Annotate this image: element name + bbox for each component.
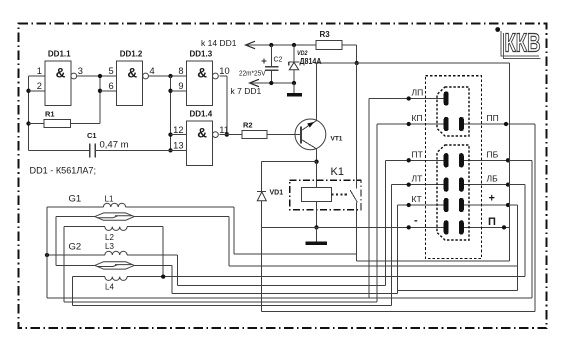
connector plug shell bottom	[437, 145, 469, 240]
svg-text:VD1: VD1	[270, 190, 284, 197]
reed switch G1	[95, 213, 135, 220]
node: out join	[225, 132, 229, 136]
wire: PT drop	[385, 160, 387, 285]
wire: input bus vertical	[170, 76, 172, 150]
wire: reed G2 row	[56, 264, 95, 266]
wire: C1 row left	[29, 149, 90, 151]
wire: row &#x41F;&#x41F; right	[464, 123, 535, 125]
relay coil K1	[302, 188, 332, 202]
wire: L2 row	[64, 226, 105, 228]
svg-text:12: 12	[173, 125, 183, 135]
svg-text:ККВ: ККВ	[505, 28, 541, 58]
svg-text:П: П	[488, 216, 496, 228]
wire: row &#x41F;&#x422; left	[386, 159, 445, 161]
wire: R1 right lead to DD1.2 input	[71, 123, 100, 125]
svg-text:КП: КП	[412, 113, 423, 123]
label k 14 DD1 with arrow	[201, 38, 316, 49]
ground (k7)	[287, 93, 302, 96]
reed switch G2	[95, 262, 135, 269]
svg-text:13: 13	[173, 141, 183, 151]
wire: rail A	[46, 207, 48, 298]
wire: VD1 down rail	[261, 201, 263, 312]
svg-text:VT1: VT1	[331, 136, 343, 143]
NAND gate DD1.3	[178, 50, 229, 106]
NAND gate DD1.1	[37, 50, 83, 106]
node: emitter node	[314, 160, 318, 164]
wire: rail C	[63, 227, 65, 302]
svg-text:Д814А: Д814А	[300, 57, 322, 66]
node: pin8 junction	[168, 74, 172, 78]
wire: DD1.1 pin1 stub and left rail	[29, 75, 45, 77]
svg-text:-: -	[414, 215, 418, 227]
wire: row &#x41F; right	[464, 226, 510, 228]
svg-text:k 14 DD1: k 14 DD1	[201, 38, 237, 48]
wire: power to VT1 collector	[317, 62, 357, 64]
node: pin13 junction	[168, 148, 172, 152]
wire: R3 to power node	[342, 44, 357, 46]
wire: R2 to VT1 base	[267, 134, 301, 136]
svg-text:G2: G2	[69, 242, 82, 253]
resistor R1	[44, 110, 71, 128]
wire: out10 to out11 join	[219, 75, 227, 77]
svg-text:9: 9	[178, 81, 183, 91]
wire: reed G1 row	[56, 216, 95, 218]
inductor L3	[105, 251, 127, 255]
node: R1 junction	[26, 121, 30, 125]
wire: DD1.1 out to DD1.2 in	[77, 75, 117, 77]
wire: PB return	[531, 160, 533, 297]
svg-text:22m*25V: 22m*25V	[239, 71, 266, 78]
svg-text:DD1.3: DD1.3	[190, 50, 213, 59]
wire: pin13 stub	[171, 149, 187, 151]
svg-text:R3: R3	[320, 30, 331, 39]
zener diode VD2 D814A	[289, 43, 322, 85]
node: pin12 junction	[168, 132, 172, 136]
svg-text:DD1 - К561ЛА7;: DD1 - К561ЛА7;	[30, 166, 97, 176]
svg-text:L1: L1	[105, 195, 114, 204]
node: pin2 junction	[26, 89, 30, 93]
wire: row &#x41A;&#x41F; left	[377, 123, 444, 125]
node: L2/L4 junction	[161, 274, 165, 278]
svg-text:&: &	[197, 65, 207, 80]
wire: LT drop	[391, 185, 393, 306]
inductor L4	[105, 277, 127, 281]
svg-text:R2: R2	[243, 121, 253, 130]
inductor L2	[105, 227, 127, 231]
node: power node	[355, 61, 359, 65]
wire: emitter node to VD1	[262, 161, 317, 163]
node: minus junction	[314, 225, 318, 229]
svg-text:C2: C2	[274, 57, 283, 64]
wire: LP drop	[368, 99, 370, 298]
wire: power east	[357, 62, 510, 64]
svg-text:ПТ: ПТ	[412, 149, 423, 159]
svg-text:&: &	[127, 65, 137, 80]
wire: row &#x41B;&#x422; left	[392, 184, 445, 186]
wire: P return line	[357, 260, 510, 262]
svg-text:L3: L3	[105, 242, 114, 251]
svg-text:k 7 DD1: k 7 DD1	[231, 86, 262, 96]
svg-text:0,47 m: 0,47 m	[100, 140, 129, 151]
svg-text:3: 3	[78, 66, 83, 76]
wire: rail B	[55, 217, 57, 266]
NAND gate DD1.2	[109, 50, 155, 106]
wire: KP drop	[376, 124, 378, 302]
svg-text:2: 2	[37, 81, 42, 91]
connector outer dashed box	[425, 76, 481, 259]
label k 7 DD1 with arrow	[231, 79, 295, 96]
wire: pin9 stub	[171, 90, 187, 92]
ground (emitter circuit)	[306, 242, 328, 246]
wire: power wrap vertical	[509, 63, 511, 261]
connector pins right column	[459, 117, 464, 131]
wire: pin12 stub	[171, 134, 187, 136]
transistor VT1	[295, 119, 343, 150]
wire: rail D	[72, 277, 74, 306]
wire VD2 to ground	[293, 83, 295, 93]
connector plug shell top	[437, 87, 469, 136]
resistor R2	[242, 121, 267, 139]
wire: row &#x41B;&#x41F; left	[369, 98, 444, 100]
svg-text:R1: R1	[45, 110, 55, 119]
wire: coil bottom to minus rail	[316, 202, 318, 228]
wire: row &#x41A;&#x422; left	[397, 204, 444, 206]
inductor L1	[103, 203, 125, 207]
svg-text:6: 6	[109, 81, 114, 91]
svg-text:ЛП: ЛП	[412, 88, 424, 98]
relay contact K1.1	[356, 63, 358, 189]
connector pins left column	[444, 91, 449, 105]
wire: R1 left lead	[29, 123, 45, 125]
relay K1 dash-dot box	[290, 180, 361, 210]
diode VD1	[257, 190, 283, 201]
wire: L3 row	[47, 254, 105, 256]
relay actuation dashed link	[332, 194, 350, 196]
svg-text:K1: K1	[331, 166, 344, 178]
svg-text:КТ: КТ	[412, 194, 422, 204]
wire: minus rail	[262, 226, 444, 228]
svg-text:G1: G1	[69, 194, 82, 205]
wire: row &#x41B;&#x411; right	[464, 184, 525, 186]
wire: LB return	[524, 185, 526, 277]
wire: row + right	[464, 204, 518, 206]
node: out3 junction	[98, 74, 102, 78]
wire: plus return	[516, 205, 518, 290]
resistor R3	[316, 30, 342, 49]
svg-text:ПБ: ПБ	[487, 149, 499, 159]
node: pin6 junction	[98, 89, 102, 93]
svg-text:+: +	[489, 193, 495, 205]
svg-text:5: 5	[109, 66, 114, 76]
wire: pin 2 stub	[29, 90, 45, 92]
svg-text:&: &	[197, 126, 207, 141]
capacitor C2 electrolytic	[239, 43, 283, 85]
svg-text:4: 4	[150, 66, 155, 76]
wire: out11 to R2	[219, 134, 242, 136]
wire: PP return	[262, 311, 535, 313]
svg-text:DD1.2: DD1.2	[120, 50, 143, 59]
svg-text:ПП: ПП	[487, 113, 499, 123]
capacitor C1 0,47m	[87, 131, 129, 157]
NAND gate DD1.4	[173, 110, 229, 166]
svg-text:L2: L2	[105, 233, 114, 242]
logo KKB	[495, 27, 540, 58]
wire: DD1.2 out to DD1.3	[149, 75, 187, 77]
svg-text:8: 8	[178, 66, 183, 76]
wire: L1 row	[47, 206, 103, 208]
wire: L4 row	[73, 276, 105, 278]
wire: emitter to coil	[316, 162, 318, 188]
node: minus label dot	[407, 225, 411, 229]
svg-text:C1: C1	[87, 131, 97, 140]
svg-text:10: 10	[219, 66, 229, 76]
wire: pin6 stub	[100, 90, 117, 92]
wire: row &#x41F;&#x411; right	[464, 159, 533, 161]
svg-text:DD1.4: DD1.4	[190, 110, 213, 119]
wire: C1 row right	[95, 149, 170, 151]
node: pin9 junction	[168, 89, 172, 93]
svg-text:&: &	[56, 65, 66, 80]
wire: to ground 2	[316, 227, 318, 241]
wire: KT drop	[396, 205, 398, 294]
svg-text:DD1.1: DD1.1	[48, 50, 71, 59]
svg-text:ЛТ: ЛТ	[412, 174, 423, 184]
svg-text:1: 1	[37, 66, 42, 76]
svg-text:L4: L4	[105, 283, 114, 292]
wire: VT1 emitter down	[316, 149, 318, 162]
svg-text:ЛБ: ЛБ	[487, 174, 499, 184]
